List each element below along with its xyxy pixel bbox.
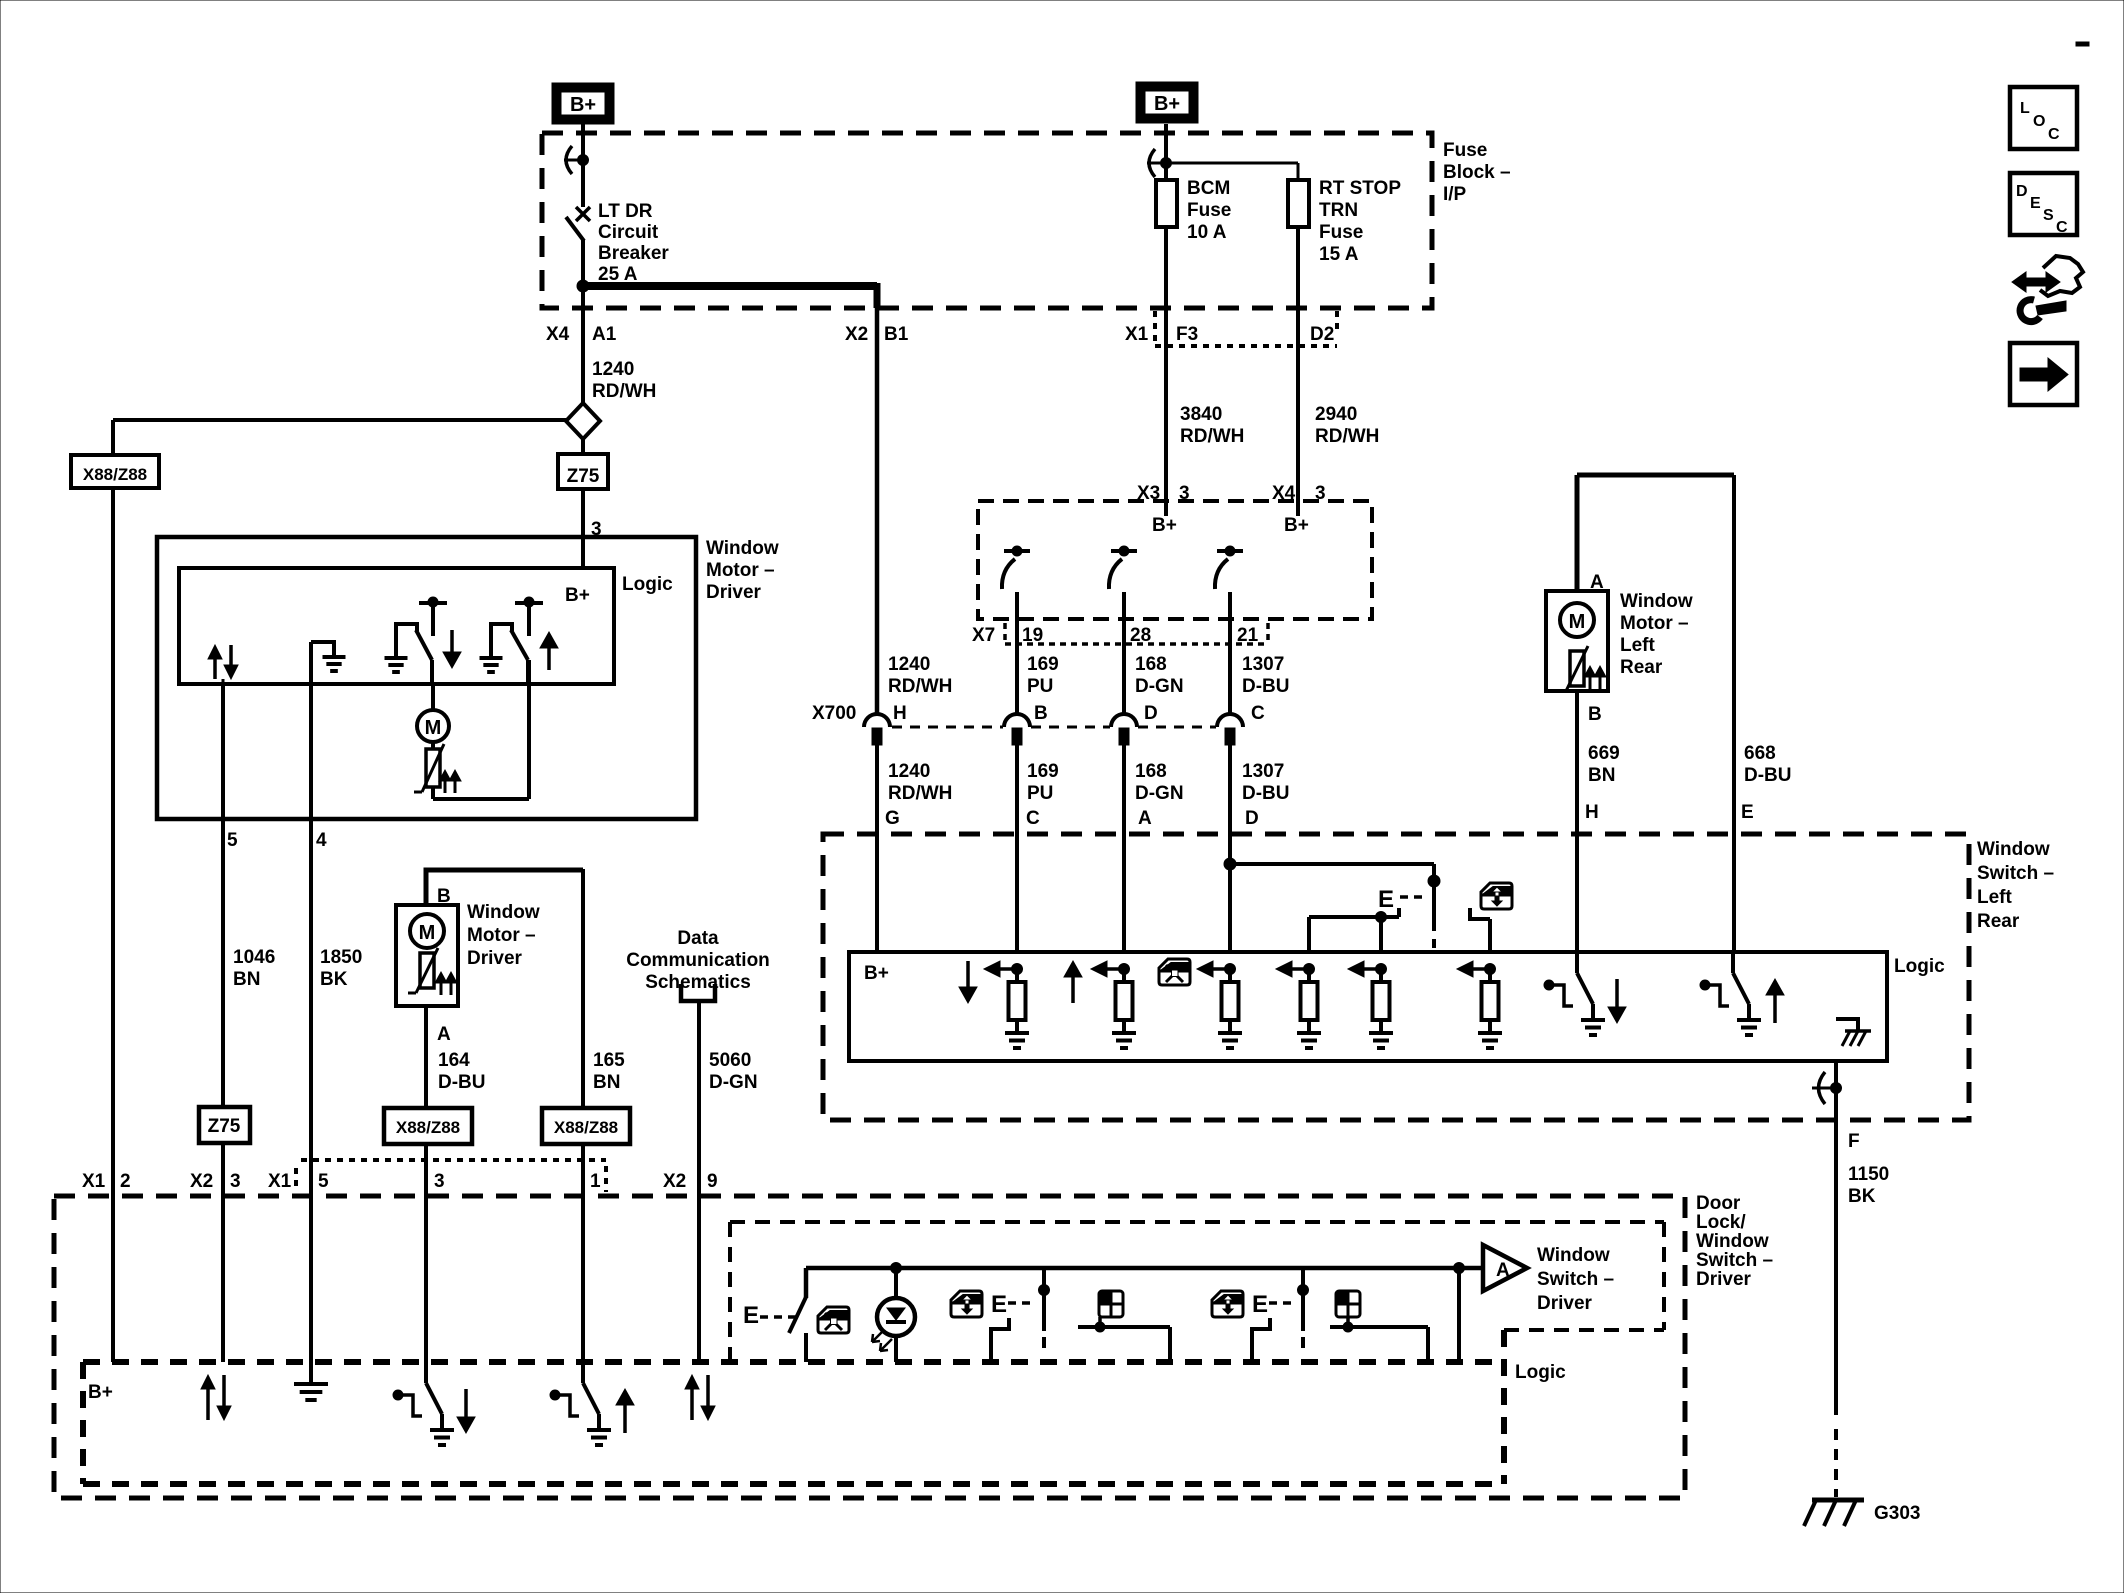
svg-text:G: G xyxy=(885,808,900,829)
svg-text:Left: Left xyxy=(1977,887,2013,908)
svg-text:3: 3 xyxy=(1179,483,1190,504)
svg-text:D-GN: D-GN xyxy=(1135,783,1184,804)
svg-text:1850: 1850 xyxy=(320,947,362,968)
svg-text:LT DR: LT DR xyxy=(598,201,653,222)
svg-text:D-GN: D-GN xyxy=(709,1072,758,1093)
svg-text:X7: X7 xyxy=(972,625,995,646)
svg-text:Window: Window xyxy=(1977,839,2050,860)
svg-text:O: O xyxy=(2033,113,2045,130)
svg-text:Driver: Driver xyxy=(1696,1269,1752,1290)
svg-text:F: F xyxy=(1848,1131,1860,1152)
svg-text:Left: Left xyxy=(1620,635,1656,656)
svg-text:1240: 1240 xyxy=(888,654,930,675)
svg-text:F3: F3 xyxy=(1176,324,1198,345)
svg-text:2940: 2940 xyxy=(1315,404,1357,425)
svg-text:1240: 1240 xyxy=(592,359,634,380)
svg-text:B+: B+ xyxy=(570,94,596,116)
svg-text:5: 5 xyxy=(227,830,238,851)
svg-text:Window: Window xyxy=(706,538,779,559)
svg-text:C: C xyxy=(1251,703,1265,724)
svg-text:RT STOP: RT STOP xyxy=(1319,178,1401,199)
svg-text:Switch –: Switch – xyxy=(1977,863,2054,884)
svg-text:C: C xyxy=(2048,126,2060,143)
svg-text:D-BU: D-BU xyxy=(438,1072,486,1093)
svg-text:Block –: Block – xyxy=(1443,162,1511,183)
svg-text:A1: A1 xyxy=(592,324,617,345)
svg-text:B1: B1 xyxy=(884,324,909,345)
svg-text:3: 3 xyxy=(434,1171,445,1192)
svg-text:BN: BN xyxy=(1588,765,1615,786)
svg-text:165: 165 xyxy=(593,1050,625,1071)
svg-text:1307: 1307 xyxy=(1242,654,1284,675)
svg-text:Door: Door xyxy=(1696,1193,1741,1214)
svg-text:X4: X4 xyxy=(1272,483,1296,504)
svg-text:Communication: Communication xyxy=(626,950,770,971)
svg-text:D: D xyxy=(1245,808,1259,829)
svg-text:BCM: BCM xyxy=(1187,178,1230,199)
svg-text:1: 1 xyxy=(590,1171,601,1192)
svg-text:X1: X1 xyxy=(82,1171,106,1192)
svg-text:Driver: Driver xyxy=(467,948,523,969)
svg-text:Data: Data xyxy=(677,928,719,949)
svg-text:Fuse: Fuse xyxy=(1443,140,1487,161)
svg-text:19: 19 xyxy=(1022,625,1043,646)
svg-text:X2: X2 xyxy=(663,1171,686,1192)
svg-text:Rear: Rear xyxy=(1977,911,2020,932)
svg-text:Driver: Driver xyxy=(1537,1293,1593,1314)
svg-text:E: E xyxy=(1378,886,1394,913)
svg-text:E: E xyxy=(1741,802,1754,823)
svg-text:I/P: I/P xyxy=(1443,184,1467,205)
svg-text:Circuit: Circuit xyxy=(598,222,659,243)
svg-text:D-BU: D-BU xyxy=(1744,765,1792,786)
svg-text:Driver: Driver xyxy=(706,582,762,603)
svg-text:RD/WH: RD/WH xyxy=(888,676,952,697)
svg-text:G303: G303 xyxy=(1874,1503,1920,1524)
svg-text:1240: 1240 xyxy=(888,761,930,782)
svg-text:D-BU: D-BU xyxy=(1242,676,1290,697)
svg-text:B+: B+ xyxy=(565,585,590,606)
svg-text:B: B xyxy=(1588,704,1602,725)
svg-text:4: 4 xyxy=(316,830,327,851)
svg-text:Lock/: Lock/ xyxy=(1696,1212,1746,1233)
svg-text:1307: 1307 xyxy=(1242,761,1284,782)
svg-text:A: A xyxy=(1496,1260,1510,1281)
svg-text:Rear: Rear xyxy=(1620,657,1663,678)
svg-text:S: S xyxy=(2043,207,2054,224)
svg-text:TRN: TRN xyxy=(1319,200,1358,221)
svg-text:D: D xyxy=(1144,703,1158,724)
svg-text:M: M xyxy=(1569,611,1586,633)
svg-text:15 A: 15 A xyxy=(1319,244,1359,265)
svg-text:X1: X1 xyxy=(268,1171,292,1192)
svg-text:X3: X3 xyxy=(1137,483,1160,504)
svg-text:25 A: 25 A xyxy=(598,264,638,285)
svg-text:H: H xyxy=(1585,802,1599,823)
svg-text:3: 3 xyxy=(1315,483,1326,504)
svg-text:C: C xyxy=(2056,219,2068,236)
svg-text:Schematics: Schematics xyxy=(645,972,751,993)
svg-text:E: E xyxy=(991,1291,1007,1318)
svg-text:RD/WH: RD/WH xyxy=(1180,426,1244,447)
svg-text:RD/WH: RD/WH xyxy=(1315,426,1379,447)
svg-text:PU: PU xyxy=(1027,676,1053,697)
svg-text:X4: X4 xyxy=(546,324,570,345)
svg-text:BN: BN xyxy=(233,969,260,990)
svg-text:BK: BK xyxy=(1848,1186,1876,1207)
svg-text:3: 3 xyxy=(230,1171,241,1192)
svg-text:D: D xyxy=(2016,183,2028,200)
svg-text:D-GN: D-GN xyxy=(1135,676,1184,697)
svg-text:B+: B+ xyxy=(88,1382,113,1403)
svg-text:X2: X2 xyxy=(845,324,868,345)
svg-text:X88/Z88: X88/Z88 xyxy=(396,1118,460,1137)
svg-text:Z75: Z75 xyxy=(567,466,600,487)
svg-text:Z75: Z75 xyxy=(208,1116,241,1137)
svg-text:E: E xyxy=(2030,195,2041,212)
svg-text:M: M xyxy=(419,922,436,944)
svg-text:B: B xyxy=(1034,703,1048,724)
svg-text:669: 669 xyxy=(1588,743,1620,764)
svg-text:668: 668 xyxy=(1744,743,1776,764)
svg-text:Breaker: Breaker xyxy=(598,243,669,264)
svg-text:10 A: 10 A xyxy=(1187,222,1227,243)
svg-text:Logic: Logic xyxy=(1894,956,1945,977)
svg-text:21: 21 xyxy=(1237,625,1259,646)
svg-text:X1: X1 xyxy=(1125,324,1149,345)
svg-text:169: 169 xyxy=(1027,654,1059,675)
svg-text:BK: BK xyxy=(320,969,348,990)
svg-text:X2: X2 xyxy=(190,1171,213,1192)
svg-text:168: 168 xyxy=(1135,761,1167,782)
svg-text:D-BU: D-BU xyxy=(1242,783,1290,804)
svg-text:E: E xyxy=(743,1302,759,1329)
svg-text:Fuse: Fuse xyxy=(1187,200,1231,221)
svg-text:RD/WH: RD/WH xyxy=(888,783,952,804)
svg-text:B+: B+ xyxy=(864,963,889,984)
svg-text:H: H xyxy=(893,703,907,724)
svg-text:Logic: Logic xyxy=(622,574,673,595)
svg-text:PU: PU xyxy=(1027,783,1053,804)
svg-text:28: 28 xyxy=(1130,625,1151,646)
svg-text:Fuse: Fuse xyxy=(1319,222,1363,243)
svg-text:B+: B+ xyxy=(1284,515,1309,536)
svg-text:2: 2 xyxy=(120,1171,131,1192)
svg-text:X88/Z88: X88/Z88 xyxy=(554,1118,618,1137)
svg-text:Motor –: Motor – xyxy=(467,925,536,946)
svg-text:164: 164 xyxy=(438,1050,470,1071)
svg-text:A: A xyxy=(437,1024,451,1045)
svg-text:X88/Z88: X88/Z88 xyxy=(83,465,147,484)
svg-text:M: M xyxy=(425,717,442,739)
svg-text:3840: 3840 xyxy=(1180,404,1222,425)
svg-text:B+: B+ xyxy=(1154,93,1180,115)
svg-text:169: 169 xyxy=(1027,761,1059,782)
svg-text:BN: BN xyxy=(593,1072,620,1093)
svg-text:168: 168 xyxy=(1135,654,1167,675)
svg-text:A: A xyxy=(1138,808,1152,829)
svg-text:Window: Window xyxy=(1696,1231,1769,1252)
svg-text:Switch –: Switch – xyxy=(1537,1269,1614,1290)
svg-text:L: L xyxy=(2020,100,2030,117)
svg-text:1046: 1046 xyxy=(233,947,275,968)
svg-text:Logic: Logic xyxy=(1515,1362,1566,1383)
svg-text:1150: 1150 xyxy=(1848,1164,1889,1185)
svg-text:D2: D2 xyxy=(1310,324,1334,345)
svg-text:Window: Window xyxy=(467,902,540,923)
svg-text:E: E xyxy=(1252,1291,1268,1318)
svg-text:RD/WH: RD/WH xyxy=(592,381,656,402)
svg-text:X700: X700 xyxy=(812,703,856,724)
svg-text:9: 9 xyxy=(707,1171,718,1192)
svg-text:B+: B+ xyxy=(1152,515,1177,536)
svg-text:Window: Window xyxy=(1537,1245,1610,1266)
svg-text:5: 5 xyxy=(318,1171,329,1192)
svg-text:5060: 5060 xyxy=(709,1050,751,1071)
svg-text:Motor –: Motor – xyxy=(706,560,775,581)
svg-text:Switch –: Switch – xyxy=(1696,1250,1773,1271)
svg-text:Motor –: Motor – xyxy=(1620,613,1689,634)
svg-text:C: C xyxy=(1026,808,1040,829)
svg-text:Window: Window xyxy=(1620,591,1693,612)
